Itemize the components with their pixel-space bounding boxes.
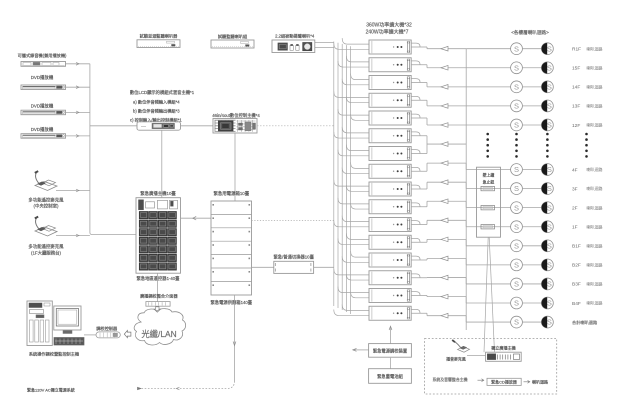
svg-text:15F: 15F — [572, 66, 580, 72]
svg-text:S: S — [514, 184, 519, 193]
svg-text:B3F: B3F — [572, 282, 581, 288]
svg-text:多功能遙控麥克風: 多功能遙控麥克風 — [28, 196, 64, 203]
svg-text:喇叭迴路: 喇叭迴路 — [587, 166, 603, 172]
svg-text:急止鈕: 急止鈕 — [483, 179, 495, 184]
svg-text:喇叭迴路: 喇叭迴路 — [587, 122, 603, 128]
svg-text:喇叭迴路: 喇叭迴路 — [587, 242, 603, 248]
svg-text:S: S — [514, 260, 519, 269]
svg-text:S: S — [547, 222, 552, 231]
svg-text:a) 數位伴音頻輸入模組*4: a) 數位伴音頻輸入模組*4 — [133, 98, 180, 105]
svg-text:緊急120V AC獨立電源系統: 緊急120V AC獨立電源系統 — [27, 386, 75, 392]
svg-text:播音麥克風: 播音麥克風 — [446, 356, 466, 361]
svg-text:S: S — [514, 203, 519, 212]
svg-text:S: S — [547, 280, 552, 289]
svg-text:喇叭迴路: 喇叭迴路 — [587, 223, 603, 229]
svg-text:S: S — [547, 299, 552, 308]
svg-text:S: S — [514, 165, 519, 174]
svg-text:喇叭迴路: 喇叭迴路 — [587, 83, 603, 89]
svg-text:S: S — [514, 121, 519, 130]
svg-text:緊急CD播放器: 緊急CD播放器 — [491, 379, 517, 385]
svg-text:S: S — [514, 241, 519, 250]
svg-text:S: S — [514, 102, 519, 111]
svg-text:系統及音響整合主機: 系統及音響整合主機 — [432, 377, 467, 382]
svg-text:獨立廣播主機: 獨立廣播主機 — [491, 344, 516, 350]
svg-text:壁上鐘: 壁上鐘 — [483, 172, 495, 177]
svg-text:數位LCD顯示的模組式混音主機*1: 數位LCD顯示的模組式混音主機*1 — [130, 89, 195, 96]
svg-text:3F: 3F — [572, 186, 578, 192]
svg-text:(1F大廳服務台): (1F大廳服務台) — [31, 249, 62, 256]
svg-text:多功能遙控麥克風: 多功能遙控麥克風 — [28, 243, 64, 250]
svg-text:可攜式錄音機(兼用播放機): 可攜式錄音機(兼用播放機) — [18, 52, 67, 59]
svg-text:13F: 13F — [572, 104, 580, 110]
svg-text:緊急電源供應箱140臺: 緊急電源供應箱140臺 — [211, 299, 253, 306]
svg-text:試驗並迴監聽喇叭器: 試驗並迴監聽喇叭器 — [140, 33, 179, 40]
svg-text:14F: 14F — [572, 85, 580, 91]
svg-text:緊急蓄電池組: 緊急蓄電池組 — [377, 373, 403, 380]
svg-text:S: S — [547, 44, 552, 53]
svg-text:S: S — [514, 63, 519, 72]
svg-text:喇叭迴路: 喇叭迴路 — [587, 261, 603, 267]
svg-text:調校控制器: 調校控制器 — [96, 325, 118, 332]
svg-text:試聽監聽喇叭組: 試聽監聽喇叭組 — [218, 33, 247, 40]
svg-text:2.2組被動揚聲喇叭*4: 2.2組被動揚聲喇叭*4 — [275, 33, 315, 40]
svg-text:喇叭迴路: 喇叭迴路 — [532, 378, 548, 384]
svg-text:DVD播放機: DVD播放機 — [31, 103, 54, 110]
svg-text:系統操作調校暨監控制主機: 系統操作調校暨監控制主機 — [29, 350, 80, 357]
svg-text:S: S — [547, 260, 552, 269]
svg-text:緊急廣播主機10臺: 緊急廣播主機10臺 — [140, 190, 176, 197]
svg-text:DVD播放機: DVD播放機 — [31, 74, 54, 81]
svg-text:S: S — [547, 102, 552, 111]
svg-text:緊急地區遙控器1-40臺: 緊急地區遙控器1-40臺 — [137, 275, 181, 282]
svg-text:喇叭迴路: 喇叭迴路 — [587, 300, 603, 306]
svg-text:喇叭迴路: 喇叭迴路 — [587, 281, 603, 287]
svg-text:B1F: B1F — [572, 244, 581, 250]
svg-text:喇叭迴路: 喇叭迴路 — [587, 103, 603, 109]
svg-text:S: S — [514, 82, 519, 91]
svg-text:喇叭迴路: 喇叭迴路 — [587, 204, 603, 210]
svg-text:緊急/普通切換器10臺: 緊急/普通切換器10臺 — [274, 253, 315, 260]
svg-text:S: S — [547, 203, 552, 212]
svg-text:2F: 2F — [572, 205, 578, 211]
svg-text:S: S — [547, 165, 552, 174]
svg-text:S: S — [514, 222, 519, 231]
svg-text:合計喇叭迴路: 合計喇叭迴路 — [572, 319, 598, 326]
svg-text:4F: 4F — [572, 167, 578, 173]
svg-text:B2F: B2F — [572, 263, 581, 269]
svg-text:S: S — [547, 63, 552, 72]
svg-text:S: S — [547, 82, 552, 91]
svg-text:360W功率擴大機*32: 360W功率擴大機*32 — [366, 21, 412, 28]
svg-text:S: S — [547, 184, 552, 193]
svg-text:S: S — [547, 241, 552, 250]
svg-text:1F: 1F — [572, 225, 578, 231]
svg-text:(中央控制室): (中央控制室) — [34, 203, 59, 210]
svg-text:喇叭迴路: 喇叭迴路 — [587, 45, 603, 51]
svg-text:DVD播放機: DVD播放機 — [31, 126, 54, 133]
svg-text:<各樓層喇叭迴路>: <各樓層喇叭迴路> — [511, 29, 549, 36]
svg-text:b) 數位伴音頻輸出模組*3: b) 數位伴音頻輸出模組*3 — [133, 108, 180, 115]
svg-text:R1F: R1F — [572, 47, 581, 53]
svg-text:光纖/LAN: 光纖/LAN — [141, 329, 176, 339]
svg-text:S: S — [514, 318, 519, 327]
svg-text:喇叭迴路: 喇叭迴路 — [587, 64, 603, 70]
svg-text:S: S — [547, 121, 552, 130]
svg-text:S: S — [514, 44, 519, 53]
svg-text:緊急電源調校裝置: 緊急電源調校裝置 — [373, 348, 408, 355]
svg-text:緊急用電源箱10臺: 緊急用電源箱10臺 — [213, 190, 249, 197]
svg-text:12F: 12F — [572, 123, 580, 129]
svg-text:S: S — [547, 318, 552, 327]
svg-text:喇叭迴路: 喇叭迴路 — [587, 185, 603, 191]
svg-text:240W功率擴大機*7: 240W功率擴大機*7 — [366, 29, 409, 36]
svg-text:S: S — [514, 299, 519, 308]
svg-text:B4F: B4F — [572, 301, 581, 307]
svg-text:S: S — [514, 280, 519, 289]
svg-text:廣播調校整合介面器: 廣播調校整合介面器 — [140, 292, 179, 299]
